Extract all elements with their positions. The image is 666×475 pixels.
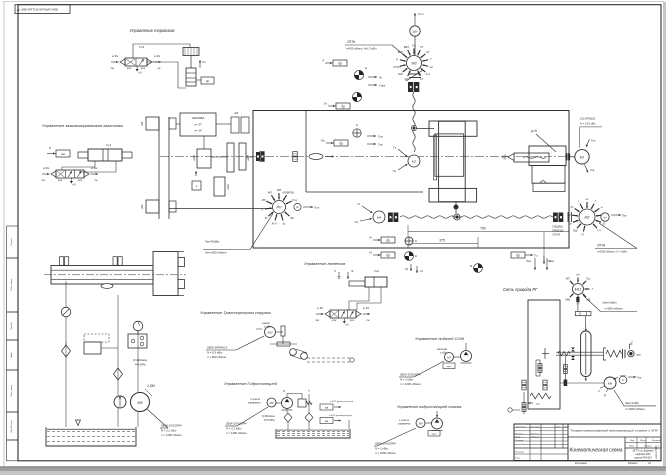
- svg-text:Гω: Гω: [420, 270, 423, 273]
- clamp valve 4/3: [56, 170, 84, 178]
- svg-text:Р=6 МПа: Р=6 МПа: [264, 419, 275, 422]
- coupling on feed screw left: [388, 213, 393, 223]
- svg-text:М9: М9: [419, 422, 423, 426]
- shaft gear marks: [571, 348, 575, 352]
- belt drive left: belt: [158, 117, 160, 219]
- svg-text:Управление тормозом: Управление тормозом: [130, 28, 175, 33]
- svg-text:Управление Транспортером струж: Управление Транспортером стружки: [200, 310, 272, 315]
- sensor box dr2: [336, 103, 350, 109]
- svg-text:М10: М10: [267, 331, 273, 335]
- signal arrows Gv: [368, 76, 377, 78]
- svg-text:ПРИВОДА: ПРИВОДА: [552, 230, 564, 233]
- svg-text:ш Фк: ш Фк: [91, 166, 98, 170]
- svg-text:№ докум.: № докум.: [531, 426, 540, 429]
- svg-text:N = 0.5 кВт: N = 0.5 кВт: [207, 351, 223, 355]
- sensor cross circle inside headstock area: [353, 129, 361, 137]
- turret vertical shaft to M6: [564, 356, 566, 383]
- hydrostation tank: [276, 429, 350, 438]
- svg-text:Чм=Тв/Вм: Чм=Тв/Вм: [205, 240, 219, 244]
- svg-text:Ч: Ч: [261, 207, 263, 211]
- rotary union circle: [61, 307, 71, 317]
- turret cross gear: [544, 348, 546, 359]
- svg-text:др: др: [516, 253, 520, 257]
- arrow Gt: [199, 60, 201, 68]
- conveyor gearbox: [276, 331, 283, 333]
- svg-text:Управление зажимом/разжимом за: Управление зажимом/разжимом заготовки: [42, 123, 124, 128]
- svg-text:SEW SPIRALS: SEW SPIRALS: [207, 346, 227, 350]
- svg-text:Nвн=1кВт: Nвн=1кВт: [625, 401, 640, 405]
- coupling on spindle input: [256, 152, 260, 161]
- leader and label M10: [236, 336, 264, 350]
- svg-text:375: 375: [439, 239, 445, 243]
- svg-text:Гмх: Гмх: [622, 214, 627, 218]
- turret bottom gears: [522, 403, 526, 407]
- svg-text:GШ: GШ: [398, 72, 403, 76]
- svg-text:к ЧПУ (температура): к ЧПУ (температура): [329, 415, 352, 417]
- bevel gear bar: [575, 312, 591, 316]
- signal arrow Gshp: [414, 13, 416, 25]
- svg-text:Лм=1500 об/мин: Лм=1500 об/мин: [204, 251, 227, 255]
- tank vent triangle: [76, 420, 81, 426]
- svg-text:М11: М11: [575, 288, 582, 292]
- svg-text:А1: А1: [647, 462, 652, 465]
- svg-text:М2: М2: [412, 160, 416, 164]
- label M11: [583, 295, 601, 311]
- main spindle centerline: [160, 156, 516, 158]
- sensor quad circle N2: [352, 92, 361, 101]
- svg-text:2ПТА: 2ПТА: [346, 40, 355, 44]
- left margin attribute boxes: [7, 226, 19, 258]
- svg-text:GШ: GШ: [573, 228, 578, 232]
- svg-text:щит: щит: [447, 366, 452, 368]
- svg-text:Период: Период: [10, 237, 13, 245]
- svg-text:⌀200: ⌀200: [227, 184, 230, 190]
- machine hyd cabinet: [428, 431, 440, 437]
- svg-text:Подп. дата: Подп. дата: [10, 384, 13, 397]
- svg-text:р=5: р=5: [530, 129, 537, 133]
- svg-text:n = 1400 об/мин: n = 1400 об/мин: [161, 433, 182, 437]
- svg-text:Гт: Гт: [202, 60, 207, 64]
- svg-text:12м SPM161: 12м SPM161: [580, 117, 596, 121]
- svg-text:n=500 об/мин, N=1.5 кВт: n=500 об/мин, N=1.5 кВт: [346, 47, 377, 51]
- svg-text:2ПТА: 2ПТА: [596, 244, 605, 248]
- motor M10: [265, 327, 276, 338]
- brake throttle box: [201, 77, 214, 84]
- clamp sensor box: [56, 150, 70, 157]
- svg-text:Гф: Гф: [405, 268, 408, 271]
- dimension 375: [408, 243, 478, 245]
- tacho dp on RP: [294, 203, 301, 210]
- dimension 750: [407, 225, 409, 248]
- svg-text:М6: М6: [608, 382, 612, 386]
- motor M11 with rays: [573, 284, 584, 295]
- svg-text:МЛ: МЛ: [268, 191, 272, 195]
- filter diamond left: [62, 345, 71, 357]
- svg-text:Лс: Лс: [323, 102, 328, 106]
- hydraulic line left: [65, 281, 67, 427]
- filter diamond 2: [305, 413, 313, 422]
- svg-text:n=1500 об/мин, N = 3 кВт: n=1500 об/мин, N = 3 кВт: [597, 251, 627, 254]
- svg-text:Гшп: Гшп: [378, 135, 384, 139]
- motor M2 feed with signal rays: [579, 209, 595, 225]
- drawbar gear top B: [113, 257, 117, 266]
- svg-text:МВ: МВ: [277, 188, 281, 192]
- svg-text:М5: М5: [138, 401, 143, 405]
- svg-text:Гпв: Гпв: [590, 168, 595, 172]
- svg-text:др: др: [206, 79, 210, 83]
- title block: [514, 424, 661, 461]
- filter diamond 1: [284, 413, 292, 422]
- brake pipes: [133, 44, 190, 58]
- gear z200 upper: [197, 149, 211, 168]
- svg-text:Инв № подл.: Инв № подл.: [10, 419, 13, 432]
- headstock input shaft: [415, 128, 434, 130]
- leader and label M8: [237, 407, 268, 426]
- svg-text:АГ: АГ: [264, 216, 269, 220]
- svg-text:с пульта: с пульта: [250, 399, 261, 401]
- svg-text:Изм Лист: Изм Лист: [516, 427, 526, 429]
- svg-text:Масштаб: Масштаб: [652, 440, 661, 442]
- svg-text:М3: М3: [412, 62, 417, 66]
- svg-text:⌀56: ⌀56: [234, 112, 239, 115]
- brake stem: [190, 56, 192, 69]
- machine hyd pump: [432, 418, 443, 429]
- svg-text:утв: утв: [331, 319, 337, 322]
- svg-text:SEW DV100P4: SEW DV100P4: [226, 422, 247, 426]
- svg-text:др: др: [341, 104, 345, 108]
- svg-text:СТОЛА: СТОЛА: [552, 234, 560, 237]
- svg-text:группа РК9-091: группа РК9-091: [634, 457, 652, 460]
- svg-text:Q=100л/мин: Q=100л/мин: [133, 359, 148, 362]
- svg-text:Л: Л: [333, 269, 336, 273]
- shaft left spring: [558, 352, 570, 356]
- svg-text:n = 1000 об/мин: n = 1000 об/мин: [375, 451, 396, 455]
- svg-text:А-А: А-А: [425, 72, 431, 76]
- svg-text:управления: управления: [247, 403, 261, 405]
- feed ball screw: [400, 216, 553, 218]
- quill screw: [514, 153, 549, 162]
- pressure sensor R: [474, 264, 483, 273]
- svg-text:ω кВт: ω кВт: [440, 351, 447, 354]
- turret body: [528, 300, 560, 409]
- svg-text:СТ: СТ: [581, 232, 585, 236]
- headstock left plate: [434, 135, 437, 180]
- gear pair on spindle shaft A: [260, 152, 265, 157]
- svg-text:М8: М8: [270, 401, 274, 405]
- svg-text:SEW DV100P4: SEW DV100P4: [161, 424, 182, 428]
- hydrostation pump: [282, 398, 293, 409]
- sensor box dr3: [334, 140, 348, 146]
- leader and label M5: [147, 409, 168, 428]
- svg-text:Взам.: Взам.: [11, 352, 13, 358]
- signal down arrows: [410, 264, 412, 271]
- svg-text:управления: управления: [397, 424, 411, 426]
- motor M3 with signal rays: [407, 56, 422, 71]
- svg-text:Н.контр.: Н.контр.: [515, 452, 525, 454]
- svg-text:уто: уто: [349, 319, 355, 322]
- pulley pair right of gearbox: [231, 117, 239, 133]
- motor M9: [416, 419, 425, 428]
- drive unit M2v on vertical screw: [408, 155, 420, 167]
- label M6: [614, 390, 624, 406]
- svg-text:Управление люнетом: Управление люнетом: [304, 261, 346, 266]
- svg-text:Гкон: Гкон: [549, 260, 555, 263]
- svg-text:n=500 об/мин: n=500 об/мин: [605, 307, 624, 311]
- small notch on lower block: [540, 181, 546, 184]
- quill centerline: [502, 156, 572, 158]
- lower output shaft: [169, 208, 272, 210]
- svg-text:С: С: [598, 389, 600, 393]
- svg-text:Управление гидростанцией станк: Управление гидростанцией станка: [397, 405, 461, 409]
- svg-text:Копировал: Копировал: [575, 462, 588, 465]
- svg-text:Гтх: Гтх: [292, 198, 298, 202]
- headstock top bar: [429, 121, 477, 136]
- motor M6: [604, 377, 616, 389]
- svg-text:Гпр: Гпр: [637, 376, 642, 380]
- svg-text:Лит.: Лит.: [629, 440, 635, 442]
- svg-text:N = 2 кВт: N = 2 кВт: [400, 378, 414, 382]
- lens coupling on spindle: [309, 154, 323, 160]
- motor M7: [445, 353, 454, 362]
- svg-text:М4: М4: [377, 216, 381, 220]
- svg-text:Р: Р: [283, 389, 285, 393]
- detent roller: [628, 351, 634, 357]
- headstock inner rect: [435, 134, 464, 176]
- coolant pump: [461, 351, 472, 362]
- top-left stamp: [15, 5, 70, 14]
- svg-text:ШИ: ШИ: [413, 30, 419, 34]
- gear coupling block on M3 shaft: [408, 82, 413, 92]
- svg-text:N = 0.15 кВт: N = 0.15 кВт: [580, 122, 597, 126]
- svg-text:⌀56: ⌀56: [140, 204, 144, 209]
- coupling on feed screw right: [553, 213, 558, 223]
- chuck: [153, 252, 178, 296]
- clutch symbol below M3: [409, 73, 421, 75]
- turret index gears: [538, 364, 542, 368]
- quill body: [529, 146, 566, 166]
- brake valve 4/2: [125, 58, 147, 66]
- control valve box: [84, 342, 101, 354]
- svg-text:М-Л: М-Л: [272, 221, 277, 225]
- conveyor trough dashed: [307, 357, 352, 359]
- sensor box dr5: [381, 252, 395, 258]
- svg-text:СЛЕДЯЩ: СЛЕДЯЩ: [552, 226, 563, 229]
- svg-text:N = 2 кВт: N = 2 кВт: [375, 447, 389, 451]
- svg-text:Инв №: Инв №: [10, 322, 13, 330]
- svg-text:Управление Гидростанцией: Управление Гидростанцией: [224, 381, 278, 386]
- machine body outline: [253, 111, 569, 249]
- svg-text:нА: нА: [429, 65, 432, 69]
- svg-text:Гд: Гд: [369, 251, 372, 255]
- gearbox label box EK250BA: [180, 113, 216, 136]
- svg-text:к ЧПУ (уровень масла): к ЧПУ (уровень масла): [330, 401, 353, 403]
- svg-text:М2: М2: [585, 216, 590, 220]
- coolant cabinet box: [443, 363, 455, 369]
- svg-text:Иванов: Иванов: [531, 433, 539, 435]
- turret lock spring: [530, 393, 551, 399]
- svg-text:Т.контр.: Т.контр.: [515, 440, 524, 442]
- spindle gear select star RP: [273, 201, 286, 214]
- turret index belt loop: [581, 331, 591, 377]
- svg-text:утв: утв: [126, 67, 132, 70]
- detent flag G: [629, 344, 631, 349]
- sensor box dr1: [333, 60, 347, 66]
- svg-text:утв: утв: [57, 179, 63, 182]
- svg-text:Гц2: Гц2: [374, 269, 379, 273]
- svg-text:N = 2.2 кВт: N = 2.2 кВт: [161, 429, 177, 433]
- svg-text:СТОП: СТОП: [393, 65, 400, 69]
- svg-text:Масса: Масса: [640, 440, 647, 442]
- coolant pipe up: [465, 343, 467, 351]
- svg-text:Пров.: Пров.: [515, 437, 521, 439]
- svg-text:Р=6 МПа: Р=6 МПа: [135, 364, 146, 367]
- relief valve: [298, 399, 306, 407]
- main pump: [114, 396, 126, 408]
- svg-text:Гц3: Гц3: [139, 45, 144, 49]
- svg-text:Дата: Дата: [563, 427, 569, 429]
- svg-text:ГЛ: ГЛ: [597, 228, 600, 232]
- svg-text:Q=60л/мин: Q=60л/мин: [262, 415, 275, 418]
- svg-text:Подп.: Подп.: [556, 426, 562, 429]
- leader Gf line: [543, 232, 545, 263]
- svg-text:нА: нА: [576, 273, 579, 277]
- belt pulley top: [146, 117, 159, 130]
- svg-text:АБ: АБ: [289, 216, 294, 220]
- svg-text:Гтх: Гтх: [314, 206, 320, 210]
- ballnut on vertical screw: [411, 125, 416, 130]
- svg-text:уто: уто: [77, 179, 83, 182]
- svg-text:др: др: [338, 61, 342, 65]
- svg-text:РП: РП: [276, 206, 281, 210]
- motor M4 feed drive: [373, 211, 385, 223]
- headstock column: [439, 121, 466, 201]
- pressure gauge: [133, 321, 143, 331]
- svg-text:n = 600 об/мин: n = 600 об/мин: [207, 355, 227, 359]
- headstock bottom bar: [429, 188, 477, 202]
- M11 coupling: [576, 297, 579, 302]
- turret lower gear cluster B: [543, 380, 547, 385]
- svg-text:Гзж: Гзж: [378, 143, 383, 147]
- svg-text:Nвн=1кВт: Nвн=1кВт: [603, 301, 618, 305]
- svg-text:у= 37: у= 37: [194, 123, 202, 127]
- turret lower gear cluster A: [522, 380, 526, 385]
- svg-text:⌀56: ⌀56: [140, 121, 144, 126]
- svg-text:Петров: Петров: [531, 437, 540, 439]
- brake cylinder: [186, 68, 196, 86]
- svg-text:750: 750: [480, 227, 486, 231]
- svg-text:Сеть привода РГ: Сеть привода РГ: [503, 287, 538, 292]
- svg-text:др: др: [386, 253, 390, 257]
- svg-text:Подп. дата: Подп. дата: [10, 278, 13, 291]
- svg-text:Гпн: Гпн: [591, 139, 596, 143]
- svg-text:М7: М7: [447, 356, 451, 360]
- sensor box dr4 near dimension: [381, 237, 395, 243]
- svg-text:Разраб.: Разраб.: [515, 433, 523, 435]
- svg-text:ш Фк: ш Фк: [112, 54, 119, 58]
- belt pulley bottom: [146, 200, 159, 213]
- svg-text:Лист: Лист: [628, 446, 634, 448]
- brake pads block: [183, 48, 199, 56]
- svg-text:Токарно-револьверный многорежу: Токарно-револьверный многорежущий станок…: [570, 429, 659, 433]
- motor M5: [131, 393, 150, 412]
- ballnut on feed screw: [454, 214, 460, 220]
- svg-text:МШ: МШ: [565, 297, 570, 301]
- svg-text:насосная: насосная: [437, 349, 448, 351]
- svg-text:ВКЛ: ВКЛ: [404, 45, 409, 49]
- svg-text:n=1500 об/мин: n=1500 об/мин: [625, 407, 645, 411]
- motor M8: [267, 398, 276, 407]
- svg-text:щит: щит: [432, 434, 437, 436]
- svg-text:у= 14: у= 14: [194, 129, 202, 133]
- svg-text:N = 2.2 кВт: N = 2.2 кВт: [226, 427, 242, 431]
- svg-text:др: др: [339, 141, 343, 145]
- crosshair sensor H: [405, 237, 413, 245]
- filter diamond mid: [114, 368, 123, 380]
- svg-text:МОБРОБ: МОБРОБ: [283, 191, 295, 195]
- svg-text:Гн: Гн: [369, 236, 372, 240]
- tacho on M2: [601, 213, 609, 221]
- hydraulic line mid: [117, 295, 119, 427]
- svg-text:n = 1400 об/мин: n = 1400 об/мин: [226, 431, 247, 435]
- detent bracket and spring: [603, 348, 606, 360]
- svg-text:ω: ω: [601, 205, 603, 209]
- leader and label M9: [377, 428, 416, 446]
- svg-text:SEW DV100P4: SEW DV100P4: [400, 373, 421, 377]
- conveyor belt: [290, 349, 297, 356]
- svg-text:Гнач: Гнач: [526, 260, 532, 263]
- svg-text:Р: Р: [49, 146, 51, 150]
- leader and label M7: [414, 361, 444, 377]
- svg-text:ω кВт: ω кВт: [264, 326, 271, 329]
- svg-text:Гм: Гм: [393, 169, 396, 173]
- svg-text:Др. 5М62 РИГ70.00.00 РИЦ473-40: Др. 5М62 РИГ70.00.00 РИЦ473-405Е: [16, 9, 58, 12]
- svg-text:МЛ: МЛ: [566, 277, 570, 281]
- svg-text:ЭК250БА: ЭК250БА: [192, 116, 205, 120]
- steady rest valve: [330, 310, 356, 318]
- svg-text:Д: Д: [603, 393, 606, 397]
- apron shaft: [455, 202, 457, 214]
- encoder ShI: [410, 26, 420, 36]
- steady rest pipes: [349, 287, 369, 310]
- inner gearbox housing: [305, 111, 307, 193]
- svg-text:Ол: Ол: [568, 221, 572, 225]
- svg-text:Гшп: Гшп: [418, 12, 424, 16]
- svg-text:Гзаж: Гзаж: [379, 84, 386, 88]
- hydraulic line right: [137, 331, 139, 427]
- drawbar gear top A: [60, 257, 64, 266]
- motor M1 quill drive: [575, 150, 589, 164]
- svg-text:Гм: Гм: [355, 220, 358, 224]
- svg-text:Управление подачей СОЖ: Управление подачей СОЖ: [415, 336, 464, 341]
- svg-text:ш Фк: ш Фк: [154, 54, 161, 58]
- svg-text:ω: ω: [396, 57, 398, 61]
- ball screw vertical: [413, 92, 415, 152]
- svg-text:Листов: Листов: [643, 446, 651, 448]
- svg-text:рат 1.5059: рат 1.5059: [655, 445, 658, 459]
- gear z200 lower: [214, 177, 225, 196]
- svg-text:ш Фк: ш Фк: [363, 306, 370, 310]
- NC boxes: [320, 404, 333, 410]
- clamp pipes: [62, 161, 95, 170]
- svg-text:Л: Л: [321, 59, 324, 63]
- gear pair on spindle shaft B: [293, 152, 298, 157]
- svg-text:уто: уто: [140, 67, 146, 70]
- svg-text:с пульта: с пульта: [399, 420, 410, 422]
- svg-text:ш Фк: ш Фк: [43, 166, 50, 170]
- svg-text:М1: М1: [580, 155, 585, 159]
- gauge valve block: [128, 334, 147, 348]
- turret inputs arrows: [534, 258, 536, 270]
